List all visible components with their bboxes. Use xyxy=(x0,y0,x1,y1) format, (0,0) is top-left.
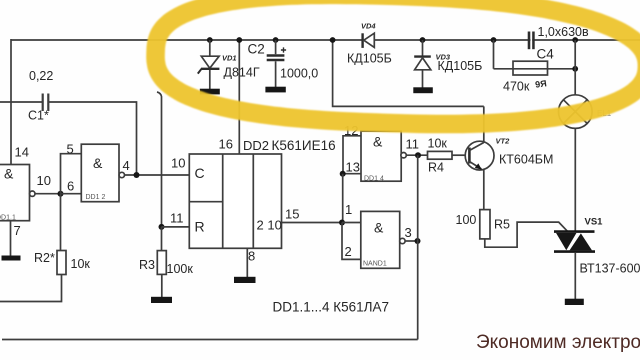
wire output pin 3 xyxy=(405,240,417,242)
wire down to R3 xyxy=(161,227,163,251)
svg-text:2 10: 2 10 xyxy=(257,218,282,233)
svg-text:&: & xyxy=(4,166,14,182)
ground for DD2 pin 8 xyxy=(234,277,256,283)
ground for triac xyxy=(565,299,584,305)
wire triac to ground xyxy=(574,253,576,299)
wire R2 bottom to left edge xyxy=(0,275,62,302)
ground for VD1 xyxy=(200,89,220,95)
svg-text:1000,0: 1000,0 xyxy=(280,67,318,81)
resistor R4 xyxy=(428,151,453,159)
wire parallel branch left xyxy=(493,40,495,69)
wire vertical feedback bus xyxy=(417,155,419,339)
zener diode VD1 xyxy=(198,40,220,89)
svg-text:1: 1 xyxy=(345,202,352,217)
wire through resistor xyxy=(494,68,575,70)
svg-text:7: 7 xyxy=(14,223,21,238)
svg-text:14: 14 xyxy=(15,145,29,160)
svg-text:R5: R5 xyxy=(494,217,510,231)
svg-text:NAND1: NAND1 xyxy=(363,261,387,268)
wire output pin 4 to DD2 pin 10 xyxy=(125,174,190,176)
divider C/R cells xyxy=(189,201,222,203)
capacitor C2 electrolytic xyxy=(267,40,286,87)
node rail C4 left xyxy=(491,37,497,43)
node pin 1 junction xyxy=(339,220,345,226)
wire output to R4 xyxy=(406,154,427,156)
svg-text:DD1.1...4 К561ЛА7: DD1.1...4 К561ЛА7 xyxy=(273,300,390,315)
svg-text:VD4: VD4 xyxy=(361,22,376,31)
svg-text:10: 10 xyxy=(37,173,51,188)
inverter bubble pin 4 xyxy=(119,172,124,177)
svg-text:5: 5 xyxy=(67,142,74,157)
svg-text:C2: C2 xyxy=(248,42,265,57)
node resistor right xyxy=(572,66,578,72)
node R3 / pin 11 junction xyxy=(159,224,165,230)
wire top supply rail xyxy=(11,39,640,41)
wire C1 feedback horizontal xyxy=(0,101,42,103)
ground for DD1.1 pin 7 xyxy=(2,256,21,261)
svg-text:16: 16 xyxy=(219,137,233,152)
capacitor C1 plates xyxy=(43,94,49,112)
inverter bubble pin 3 xyxy=(400,238,405,243)
wire into DD2 R input xyxy=(162,226,190,228)
svg-text:10к: 10к xyxy=(71,257,91,271)
wire C1 right to feedback node xyxy=(49,102,137,175)
node feedback C1 xyxy=(134,172,140,178)
svg-text:10: 10 xyxy=(171,156,185,171)
svg-text:DD1 2: DD1 2 xyxy=(86,194,106,201)
lamp EL1 xyxy=(559,95,593,129)
svg-text:6: 6 xyxy=(67,179,74,194)
node rail C2 xyxy=(273,37,279,43)
svg-text:10к: 10к xyxy=(428,137,448,151)
svg-text:11: 11 xyxy=(406,136,420,151)
svg-text:КТ604БМ: КТ604БМ xyxy=(499,153,553,167)
NAND gate DD1.1 box xyxy=(0,165,30,221)
svg-text:R3: R3 xyxy=(139,258,155,272)
inverter bubble pin 11 xyxy=(401,153,406,158)
wire lamp feed xyxy=(574,40,576,95)
wire collector run to VD4 node xyxy=(333,40,484,106)
svg-text:8: 8 xyxy=(248,249,255,264)
svg-text:R2*: R2* xyxy=(34,251,55,265)
wire R5 to triac gate xyxy=(485,222,568,247)
divider internal vertical 1 xyxy=(222,154,224,248)
wire pin 6 into DD1.2 xyxy=(61,193,82,195)
svg-text:3: 3 xyxy=(405,225,412,240)
wire output DD1.1 to node xyxy=(35,193,61,195)
wire pin 8 to ground xyxy=(246,248,248,277)
NAND gate DD1.4 box xyxy=(361,131,401,181)
svg-text:VS1: VS1 xyxy=(585,217,604,228)
node rail VD1 xyxy=(207,37,213,43)
svg-text:К561ИЕ16: К561ИЕ16 xyxy=(272,138,336,153)
ground for C2 xyxy=(265,87,285,93)
svg-text:КД105Б: КД105Б xyxy=(438,59,483,73)
svg-text:11: 11 xyxy=(170,211,184,226)
wire pin 1 into NAND1 xyxy=(342,222,361,224)
svg-text:&: & xyxy=(373,134,383,150)
svg-text:КД105Б: КД105Б xyxy=(347,52,392,66)
node rail VD3 xyxy=(420,37,426,43)
wire R3 to ground xyxy=(161,274,163,297)
svg-text:DD2: DD2 xyxy=(243,138,269,153)
svg-text:2: 2 xyxy=(345,244,352,259)
svg-text:VD1: VD1 xyxy=(222,54,237,63)
wire strap up to pin 5 xyxy=(61,154,82,194)
wire R2 down from node xyxy=(60,194,62,251)
wire strap DD1.4 pins 12/13 xyxy=(343,136,361,174)
NAND gate DD1.3 (NAND1) box xyxy=(361,211,400,268)
resistor R3 xyxy=(157,251,166,275)
wire left frame drop to DD1.1 pin 14 xyxy=(10,39,12,165)
NAND gate DD1.2 box xyxy=(81,144,119,202)
svg-text:C: C xyxy=(195,165,205,181)
svg-text:&: & xyxy=(93,155,103,171)
svg-text:100к: 100к xyxy=(167,262,194,276)
wire lamp to triac xyxy=(574,128,576,230)
wire pin 7 down xyxy=(10,221,12,256)
wire strap down to NAND1 inputs xyxy=(342,174,344,223)
diode VD4 xyxy=(363,33,375,48)
svg-text:0,22: 0,22 xyxy=(29,69,53,83)
svg-text:1,0х630в: 1,0х630в xyxy=(538,25,589,39)
svg-text:470к: 470к xyxy=(503,80,530,94)
node rail VD4 branch xyxy=(330,37,336,43)
highlight yellow ellipse xyxy=(156,0,640,124)
capacitor C4 plates xyxy=(529,32,533,50)
svg-text:DD1 4: DD1 4 xyxy=(364,176,384,183)
ground for R3 xyxy=(151,297,172,303)
resistor R2 xyxy=(57,251,66,275)
node rail pin16 xyxy=(236,37,242,43)
resistor R5 xyxy=(480,210,490,239)
wire R4 to VT2 base xyxy=(452,154,466,156)
svg-text:C4: C4 xyxy=(537,47,555,62)
divider internal vertical 2 xyxy=(252,154,254,248)
svg-text:ВТ137-600Е: ВТ137-600Е xyxy=(580,262,640,276)
svg-text:100: 100 xyxy=(456,213,477,227)
node junction pins 5/6/R2 xyxy=(58,191,64,197)
node rail lamp xyxy=(572,37,578,43)
wire mystery riser to R input xyxy=(157,92,162,227)
resistor 470к box xyxy=(513,61,548,75)
svg-text:4: 4 xyxy=(123,158,130,173)
svg-text:13: 13 xyxy=(346,160,360,175)
node pin 3 xyxy=(415,238,421,244)
svg-text:VT2: VT2 xyxy=(496,137,511,146)
wire pin 15 output xyxy=(282,222,343,224)
svg-text:DD1.1: DD1.1 xyxy=(0,215,16,222)
triac VS1 xyxy=(554,232,595,252)
svg-text:C1*: C1* xyxy=(28,109,49,123)
svg-text:Д814Г: Д814Г xyxy=(224,66,260,80)
node output 11 xyxy=(415,152,421,158)
svg-text:Экономим электро: Экономим электро xyxy=(476,332,640,353)
wire bottom feedback run xyxy=(2,339,418,341)
wire pin 16 from rail xyxy=(238,40,240,154)
diode VD3 xyxy=(414,40,431,88)
IC DD2 counter box xyxy=(189,154,281,248)
transistor VT2 xyxy=(465,141,494,170)
svg-text:R4: R4 xyxy=(428,160,444,174)
svg-text:&: & xyxy=(374,220,384,236)
wire collector up xyxy=(483,106,485,142)
wire strap to pin 2 xyxy=(342,223,361,260)
svg-text:15: 15 xyxy=(285,207,299,222)
ground for VD3 xyxy=(413,87,433,93)
inverter bubble pin 10 xyxy=(30,191,35,196)
svg-text:R: R xyxy=(195,219,205,235)
node pins 13/1 strap xyxy=(340,171,346,177)
wire emitter down to R5 xyxy=(483,169,485,209)
svg-text:9Я: 9Я xyxy=(535,78,548,90)
